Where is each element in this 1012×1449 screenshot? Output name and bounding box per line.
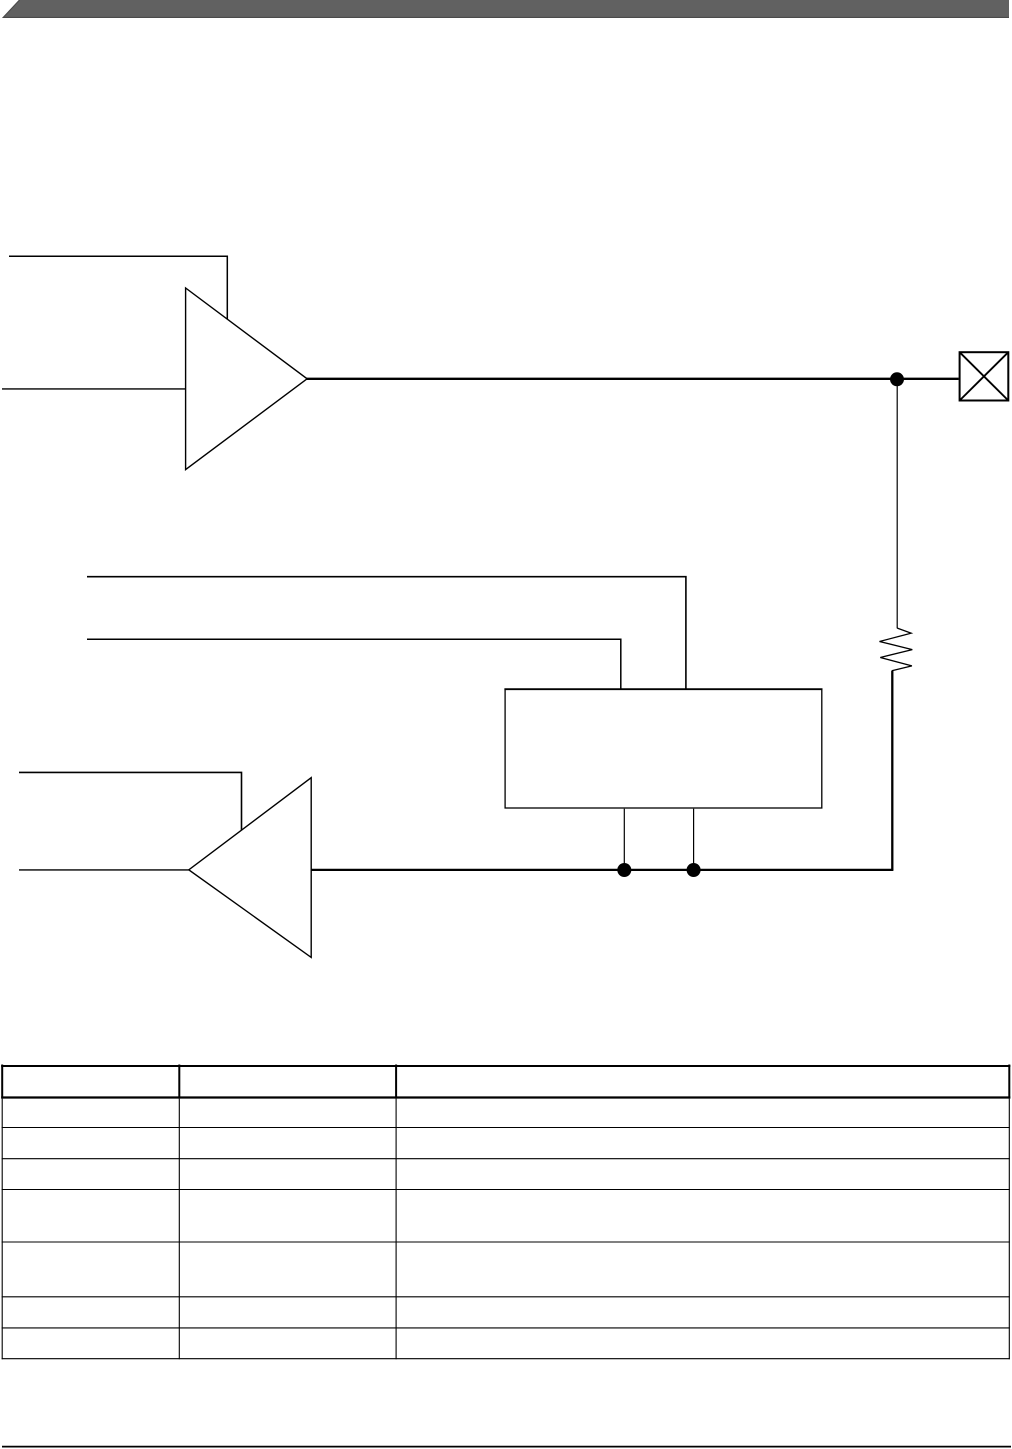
page banner (3, 0, 1009, 17)
table grid (1, 1065, 1010, 1360)
table bottom border (2, 1358, 1010, 1360)
table body vertical borders (1, 1099, 3, 1360)
wire output bus (driver apex to pad) (307, 378, 959, 380)
node junction dot 1 on bus (617, 863, 631, 877)
wire enable1 (driver enable) (9, 256, 227, 319)
wire B (block lower input) (87, 639, 621, 689)
wire bus horizontal (receiver to resistor leg) (311, 869, 894, 871)
pad P1 (crossed square bonding pad) (960, 352, 1009, 400)
wire input1 (driver input) (2, 388, 186, 390)
table header vertical borders (1, 1065, 3, 1099)
driver U1 (output buffer triangle) (186, 288, 308, 470)
resistor R1 (pull resistor zigzag) (880, 628, 913, 671)
table outer top border (1, 1065, 1010, 1067)
node junction dot 2 on bus (687, 863, 701, 877)
block U2 (logic block rectangle) (505, 689, 822, 808)
wire A (block upper input) (87, 577, 686, 689)
wire output2 (receiver output) (19, 869, 189, 871)
node junction at pad net (890, 372, 904, 386)
receiver U3 (input buffer triangle) (189, 778, 311, 958)
table row lines (2, 1127, 1010, 1129)
wire junction to resistor top (896, 379, 898, 628)
wire resistor bottom to bus corner (891, 671, 893, 870)
block U2 top edge (504, 688, 822, 690)
table header bottom border (1, 1096, 1010, 1098)
wire block output stub 2 (693, 809, 695, 870)
footer rule (2, 1446, 1011, 1448)
wire enable2 (receiver enable) (19, 772, 242, 830)
wire block output stub 1 (623, 809, 625, 870)
